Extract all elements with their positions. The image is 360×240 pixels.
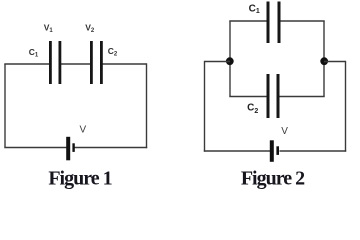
battery V (Figure 1): short plate	[72, 143, 74, 152]
capacitor C2 (Figure 2): left plate	[267, 74, 270, 118]
capacitor C1 (Figure 1): left plate	[49, 41, 52, 84]
wire: Figure 2 bottom segment from left corner to battery	[204, 150, 270, 152]
wire: Figure 2 bottom segment from battery to right corner	[280, 150, 347, 152]
wire: Figure 2 outer right vertical	[345, 61, 347, 152]
junction node: right dot (Figure 2)	[320, 57, 328, 65]
label C2 (Figure 2)	[247, 103, 258, 115]
capacitor C1 (Figure 1): right plate	[59, 41, 62, 84]
caption Figure 1	[48, 168, 111, 190]
wire: Figure 2 bottom branch segment from left to C2	[229, 96, 266, 98]
svg-text:V: V	[281, 126, 288, 137]
capacitor C2 (Figure 1): right plate	[100, 41, 103, 84]
wire: Figure 1 top segment between C1 and C2	[61, 63, 90, 65]
label C1 (Figure 1)	[29, 47, 39, 58]
label C2 (Figure 1)	[108, 46, 118, 57]
wire: Figure 1 top segment from C2 to right corner	[103, 63, 147, 65]
wire: Figure 1 bottom segment from battery to right corner	[75, 147, 148, 149]
wire: Figure 2 bottom branch segment from C2 to right	[280, 96, 325, 98]
capacitor C1 (Figure 2): left plate	[267, 2, 270, 44]
label V2 (voltage across C2, Figure 1)	[85, 23, 95, 34]
capacitor C2 (Figure 1): left plate	[90, 41, 93, 84]
capacitor C1 (Figure 2): right plate	[278, 2, 281, 44]
wire: Figure 2 top segment from left to C1	[229, 20, 266, 22]
battery V (Figure 1): long plate	[66, 137, 70, 161]
caption Figure 2	[241, 168, 305, 190]
wire: Figure 1 bottom segment from left corner to battery	[4, 147, 66, 149]
wire: Figure 2 outer left vertical	[204, 61, 206, 152]
wire: Figure 2 inner loop left vertical	[229, 21, 231, 97]
svg-text:Figure 2: Figure 2	[241, 168, 305, 190]
capacitor C2 (Figure 2): right plate	[277, 74, 280, 118]
wire: Figure 2 left stub from outer wire to left dot	[205, 61, 231, 63]
battery V (Figure 2): long plate	[270, 140, 274, 162]
wire: Figure 2 inner loop right vertical	[323, 21, 325, 97]
label V (battery, Figure 2)	[281, 126, 288, 137]
label V1 (voltage across C1, Figure 1)	[44, 23, 54, 34]
label C1 (Figure 2)	[249, 3, 260, 15]
junction node: left dot (Figure 2)	[226, 57, 234, 65]
wire: Figure 2 right stub from right dot to outer wire	[324, 61, 346, 63]
battery V (Figure 2): short plate	[276, 146, 279, 155]
wire: Figure 2 top segment from C1 to right	[281, 20, 325, 22]
svg-text:Figure 1: Figure 1	[48, 168, 111, 190]
svg-text:V: V	[80, 124, 87, 135]
wire: Figure 1 left vertical	[4, 64, 6, 148]
wire: Figure 1 right vertical	[146, 63, 148, 148]
wire: Figure 1 top segment from left corner to C1	[4, 63, 49, 65]
label V (battery, Figure 1)	[80, 124, 87, 135]
